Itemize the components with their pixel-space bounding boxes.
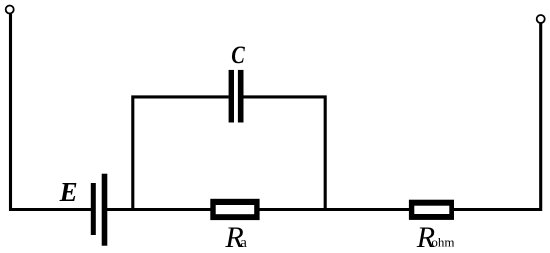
terminal (left, open circle) (6, 6, 14, 14)
resistor Ra (thick-bordered box) (210, 199, 259, 220)
battery E (left short plate) (91, 183, 96, 235)
svg-text:C: C (231, 40, 245, 69)
resistor Rohm (thick-bordered box) (409, 200, 454, 220)
terminal (right, open circle) (537, 15, 545, 23)
svg-text:ohm: ohm (431, 235, 454, 250)
svg-text:a: a (240, 235, 247, 251)
wire (Rohm right to right vertical lead up to terminal) (454, 23, 541, 209)
wire (right branch of C loop: from capacitor right, down to rail) (243, 97, 325, 210)
wire (battery to resistor Ra) (107, 208, 211, 211)
wire (Ra to Rohm) (259, 208, 410, 211)
svg-text:E: E (59, 177, 78, 207)
wire (left vertical lead down to bottom rail, then right to battery) (11, 14, 92, 210)
wire (left branch of C loop: up from rail, right to capacitor) (133, 97, 229, 210)
battery E (right long plate) (102, 174, 108, 246)
capacitor C (right plate) (238, 70, 244, 123)
capacitor C (left plate) (229, 70, 234, 123)
